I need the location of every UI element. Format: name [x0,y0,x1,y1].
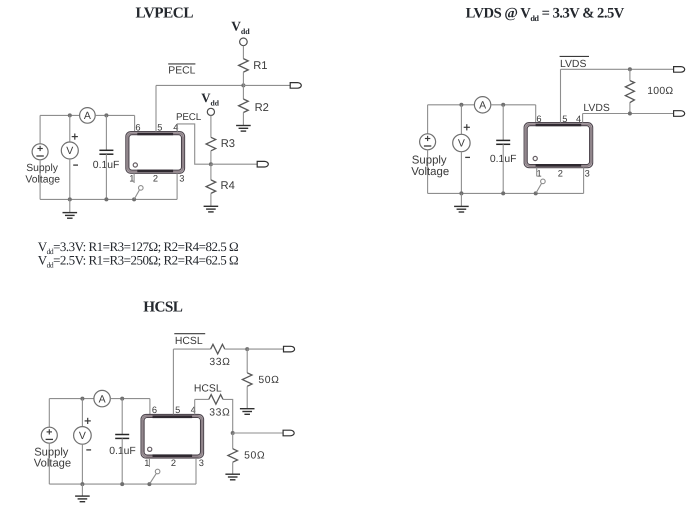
wire supply left vertical top [39,115,41,143]
svg-text:Supply: Supply [26,163,59,174]
svg-text:Vdd: Vdd [201,91,219,108]
node LVDS top rail V junction [459,103,463,107]
capacitor C3 0.1uF [115,434,129,436]
svg-text:A: A [99,393,106,405]
terminal LVDS output 1 [674,67,685,73]
node HCSL bottom junction [231,431,235,435]
resistor R3 [206,137,216,151]
svg-text:R3: R3 [221,138,235,150]
svg-text:LVDS: LVDS [583,103,609,114]
wire Vdd to R1 [242,46,244,59]
wire bottom rail [40,198,177,200]
wire HCSL pin 3 drop [195,458,197,484]
wire 33ohm to junction [225,348,247,350]
switch on pin 1 [133,173,135,183]
svg-text:HCSL: HCSL [175,336,203,347]
svg-text:50Ω: 50Ω [244,451,265,462]
wire voltmeter top [69,115,71,142]
svg-text:A: A [84,110,91,122]
wire 50ohm bottom lead [232,433,234,449]
node LVDS bottom cap junction [501,191,505,195]
resistor R2 [239,99,249,113]
svg-text:1: 1 [144,458,149,468]
svg-text:3: 3 [199,458,204,468]
svg-text:Voltage: Voltage [34,457,71,469]
wire LVDS capacitor top lead [502,105,504,141]
wire capacitor bottom lead [105,154,107,199]
wire HCSL pin6 drop [149,399,151,415]
wire HCSL supply vertical bottom [48,443,50,484]
wire HCSL ground stem [81,484,83,496]
oscillator U2 package [524,123,593,168]
wire HCSL voltmeter bottom [81,444,83,484]
wire HCSL bottom rail [49,483,196,485]
resistor 50ohm bottom [228,449,238,463]
wire HCSL-bar lead left [173,348,210,350]
node LVDS bottom ground junction [459,191,463,195]
svg-text:50Ω: 50Ω [258,375,279,386]
wire top rail right segment [95,114,134,116]
terminal LVDS output 2 [674,111,685,117]
node HCSL bottom ground junction [80,482,84,486]
wire LVDS capacitor bottom lead [502,144,504,193]
wire LVDS bottom rail [428,192,584,194]
resistor 100ohm [625,81,634,103]
wire LVDS supply vertical bottom [427,150,429,194]
wire HCSL pin4 riser [194,399,196,414]
svg-text:3: 3 [585,169,590,179]
voltmeter V HCSL [74,427,92,445]
overline PECL-bar [168,63,195,65]
wire LVDS voltmeter bottom [460,152,462,194]
terminal output 1 [290,83,301,89]
resistor 33ohm bottom [209,395,223,405]
node bottom rail cap junction [104,197,108,201]
wire junction to HCSL output 1 [247,348,283,350]
wire voltmeter bottom [69,159,71,199]
wire HCSL capacitor bottom lead [121,438,123,484]
capacitor C1 0.1uF [99,149,113,151]
svg-text:6: 6 [152,405,157,415]
svg-text:R1: R1 [253,60,267,72]
ground supply [63,212,78,214]
svg-text:2: 2 [558,169,563,179]
node bottom rail ground junction [68,197,72,201]
svg-text:2: 2 [153,174,158,184]
wire LVDS pin4 riser [582,114,584,123]
wire top rail left segment [40,114,80,116]
wire LVDS voltmeter top [460,105,462,135]
wire LVDS lower output [583,113,674,115]
wire LVDS pin6 drop [535,105,537,123]
voltmeter V LVDS [453,134,470,151]
wire 33ohm bottom to corner [223,399,233,433]
wire junction to output 1 [243,84,290,86]
node HCSL top rail V junction [80,397,84,401]
wire LVDS ground stem [460,193,462,206]
node bottom rail switch junction [132,197,136,201]
svg-text:5: 5 [157,122,162,132]
svg-text:LVPECL: LVPECL [136,5,194,22]
svg-text:5: 5 [175,405,180,415]
resistor R4 [206,180,216,194]
svg-text:3: 3 [179,174,184,184]
svg-text:2: 2 [171,458,176,468]
wire pin4 to 33ohm [195,398,209,400]
ground R4 [204,205,219,207]
terminal Vdd mid circle [207,108,214,115]
wire R4 to ground [210,193,212,206]
svg-text:HCSL: HCSL [143,298,183,315]
wire pin 3 drop [176,173,178,199]
ground 50ohm bottom [225,473,240,475]
wire LVDS-bar horizontal [561,68,674,70]
ammeter A LVDS [474,97,490,113]
node LVDS top rail cap junction [501,103,505,107]
voltmeter V [61,142,78,159]
capacitor C2 0.1uF [496,139,510,141]
wire HCSL top rail left segment [49,398,94,400]
oscillator U1 package [126,132,185,174]
node LVDS bottom switch junction [534,191,538,195]
wire supply left vertical bottom [39,160,41,200]
wire pin6 drop [134,115,136,131]
svg-text:6: 6 [536,114,541,124]
wire Vdd2 to R3 [210,116,212,138]
terminal HCSL output 1 [284,346,295,352]
resistor R1 [239,59,249,73]
svg-text:33Ω: 33Ω [209,357,230,368]
pin 1 marker HCSL [148,447,152,451]
node top rail V junction [68,113,72,117]
resistor 100ohm leads [629,69,631,80]
wire capacitor top lead [105,115,107,150]
svg-text:R4: R4 [221,180,235,192]
wire LVDS pin 3 drop [583,168,585,194]
node top rail cap junction [104,113,108,117]
svg-text:PECL: PECL [168,66,195,77]
svg-text:100Ω: 100Ω [647,86,673,97]
wire junction to R4 [210,164,212,180]
terminal Vdd top circle [240,38,248,46]
svg-text:6: 6 [135,122,140,132]
terminal HCSL output 2 [283,430,294,436]
wire junction to output 2 [211,163,257,165]
svg-text:4: 4 [576,114,581,124]
switch on pin 1 HCSL [148,458,150,467]
wire junction to HCSL output 2 [233,432,283,434]
overline LVDS-bar [560,55,589,57]
svg-text:LVDS @ Vdd = 3.3V & 2.5V: LVDS @ Vdd = 3.3V & 2.5V [466,6,625,24]
label minus voltmeter HCSL [86,449,91,451]
wire PECL-bar horizontal [156,84,243,86]
ground LVDS supply [454,205,469,207]
wire R3 to junction [210,151,212,164]
pin 1 marker [133,163,137,167]
label minus voltmeter LVDS [465,156,470,158]
wire LVDS top rail right segment [491,104,536,106]
wire ground stem [69,199,71,212]
resistor 50ohm top [242,373,252,387]
node 100ohm top junction [628,67,632,71]
label minus voltmeter [73,164,78,166]
node HCSL bottom cap junction [120,482,124,486]
ground HCSL supply [75,495,90,497]
resistor 33ohm top [211,344,225,354]
wire HCSL voltmeter top [81,399,83,427]
supply source [32,144,48,160]
svg-text:Supply: Supply [412,154,447,166]
node HCSL top junction [245,347,249,351]
svg-text:Vdd: Vdd [231,19,250,36]
oscillator U3 package [141,414,204,458]
label plus voltmeter [72,136,78,138]
wire 50ohm top to ground [246,386,248,408]
wire R2 to ground [242,113,244,126]
svg-text:Vdd=2.5V: R1=R3=250Ω; R2=R4=62: Vdd=2.5V: R1=R3=250Ω; R2=R4=62.5 Ω [38,252,238,269]
svg-text:V: V [66,145,73,157]
wire LVDS pin5 riser [560,69,562,122]
wire 50ohm top lead [246,349,248,373]
pin 1 marker LVDS [533,156,537,160]
svg-text:A: A [479,100,486,112]
supply source HCSL [41,427,57,443]
switch on pin 1 LVDS [536,168,538,177]
svg-text:HCSL: HCSL [194,384,222,395]
wire HCSL pin5 riser [172,349,174,414]
wire pin4 to lower output [177,124,211,164]
wire LVDS supply vertical top [427,105,429,134]
node R1 R2 junction [241,83,245,87]
wire HCSL capacitor top lead [121,399,123,435]
terminal output 2 [257,161,268,167]
svg-text:V: V [458,138,465,150]
svg-text:Voltage: Voltage [411,166,449,178]
wire R1 to junction [242,72,244,85]
wire 50ohm bottom to ground [232,462,234,474]
ammeter A HCSL [94,390,110,406]
wire junction to R2 [242,85,244,99]
node 100ohm bottom junction [628,112,632,116]
overline HCSL-bar [174,333,205,335]
node R3 R4 junction [209,162,213,166]
label plus voltmeter HCSL [85,420,91,422]
wire LVDS top rail left segment [428,104,475,106]
ammeter A [80,108,96,124]
wire HCSL supply vertical top [48,399,50,428]
supply source LVDS [420,134,436,150]
svg-text:Voltage: Voltage [25,174,60,185]
svg-text:V: V [79,430,86,442]
wire HCSL top rail right segment [110,398,150,400]
ground R2 [236,125,251,127]
wire pin5 riser [155,85,157,131]
ground 50ohm top [240,408,255,410]
svg-text:33Ω: 33Ω [209,408,230,419]
svg-text:PECL: PECL [176,112,202,123]
svg-text:1: 1 [537,169,542,179]
node HCSL top rail cap junction [120,397,124,401]
svg-text:LVDS: LVDS [560,59,586,70]
label plus voltmeter LVDS [464,126,470,128]
svg-text:5: 5 [562,114,567,124]
svg-text:R2: R2 [255,102,269,114]
node HCSL bottom switch junction [147,482,151,486]
